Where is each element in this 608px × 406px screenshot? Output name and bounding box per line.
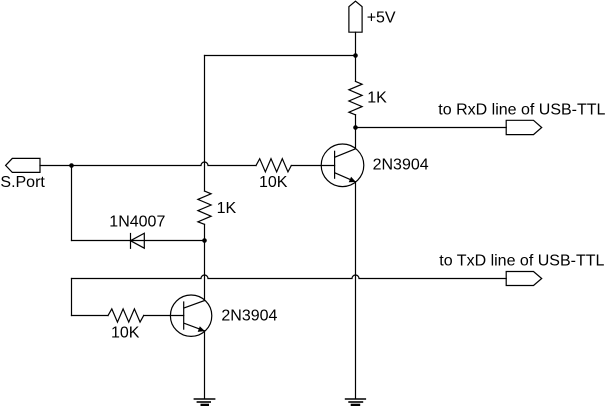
power +5V symbol [349,1,362,32]
node junction diode [202,238,207,243]
transistor Q2 collector diagonal [184,301,205,309]
wire diode horizontal [72,240,205,242]
transistor Q2 circle [170,295,211,336]
wire Q2 base lead [144,315,184,317]
svg-text:10K: 10K [259,174,288,191]
wire Q1 emitter vertical to ground [355,182,357,399]
svg-text:to RxD line of USB-TTL: to RxD line of USB-TTL [438,101,605,118]
wire TxD horizontal with hops [72,275,507,278]
wire R2 bottom lead [204,224,206,240]
wire vertical left bus upper [204,56,206,192]
transistor Q1 emitter arrow [349,177,356,183]
wire Q1 collector lead [355,128,357,149]
svg-text:1N4007: 1N4007 [109,214,165,231]
wire S.Port lead [40,165,72,167]
node junction S.Port [69,163,74,168]
transistor Q2 emitter diagonal [185,323,205,331]
wire +5V lead [355,32,357,55]
resistor R2 1K vertical [198,191,211,224]
wire RxD horizontal [356,127,507,129]
svg-text:10K: 10K [111,325,140,342]
svg-text:1K: 1K [367,89,387,106]
wire R1 bottom lead [355,115,357,128]
port RxD connector [506,120,542,134]
svg-text:2N3904: 2N3904 [373,156,429,173]
svg-text:to TxD line of USB-TTL: to TxD line of USB-TTL [439,253,604,270]
port S.Port connector [6,158,40,172]
wire S.Port down branch [71,166,73,241]
transistor Q1 base bar [334,151,336,178]
node junction top [353,53,358,58]
svg-text:1K: 1K [217,200,237,217]
svg-text:+5V: +5V [367,10,396,27]
ground left [194,399,214,405]
wire TxD left down branch [71,279,73,316]
ground right [346,399,366,405]
wire Q2 collector vertical [204,241,206,301]
wire S.Port horizontal with hop [72,162,257,165]
wire Q1 base lead [291,165,334,167]
transistor Q1 collector diagonal [335,149,356,157]
resistor R4 10K zigzag [108,309,144,322]
diode D1 cathode bar [130,234,132,249]
transistor Q2 base bar [183,302,185,329]
svg-text:2N3904: 2N3904 [221,308,277,325]
transistor Q1 emitter diagonal [335,173,356,182]
resistor R3 10K zigzag [256,159,291,172]
node junction RxD [353,125,358,130]
svg-text:S.Port: S.Port [0,174,45,191]
port TxD connector [506,272,542,286]
wire to R4 [72,315,109,317]
transistor Q2 emitter arrow [198,326,205,332]
transistor Q1 circle [321,144,364,187]
diode D1 triangle [131,233,145,248]
resistor R1 1K zigzag [349,81,362,114]
wire Q2 emitter vertical to ground [204,331,206,399]
wire top horizontal [205,55,356,57]
resistor R1 1K top lead [355,56,357,82]
